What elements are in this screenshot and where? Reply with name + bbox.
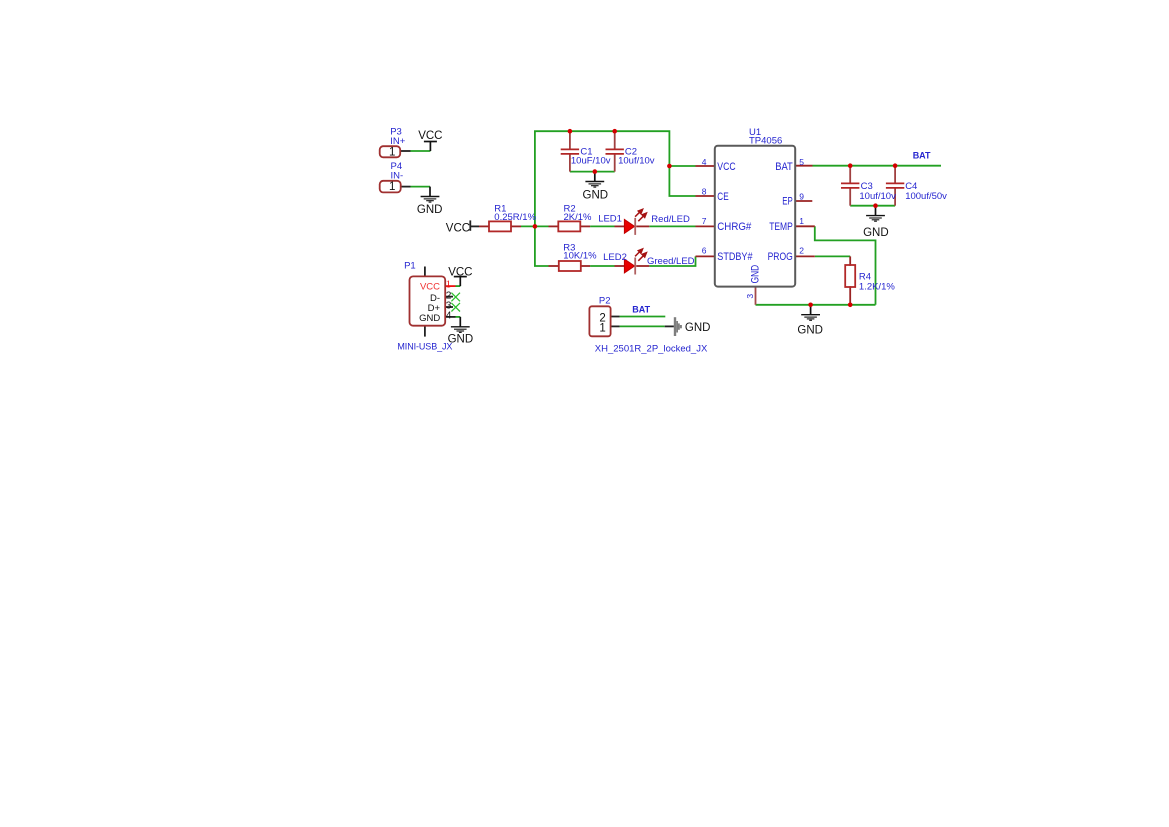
svg-text:EP: EP (782, 196, 793, 208)
svg-text:Red/LED: Red/LED (651, 214, 690, 225)
svg-text:TP4056: TP4056 (749, 136, 782, 147)
svg-text:GND: GND (863, 227, 889, 239)
svg-text:100uf/50v: 100uf/50v (905, 191, 947, 202)
svg-text:BAT: BAT (632, 305, 650, 315)
svg-text:VCC: VCC (446, 223, 470, 235)
svg-text:VCC: VCC (448, 266, 472, 278)
svg-text:1: 1 (389, 181, 395, 193)
svg-text:P1: P1 (404, 260, 416, 271)
svg-text:4: 4 (702, 157, 707, 167)
svg-text:CHRG#: CHRG# (717, 221, 751, 233)
svg-text:TEMP: TEMP (769, 221, 793, 233)
svg-text:2: 2 (799, 246, 804, 256)
svg-text:7: 7 (702, 216, 707, 226)
svg-text:GND: GND (685, 322, 711, 334)
svg-text:2K/1%: 2K/1% (564, 212, 593, 223)
svg-text:1: 1 (446, 279, 451, 290)
svg-text:GND: GND (750, 265, 762, 284)
svg-text:VCC: VCC (418, 130, 442, 142)
svg-text:LED2: LED2 (603, 252, 627, 263)
svg-text:BAT: BAT (775, 161, 793, 173)
svg-text:VCC: VCC (420, 281, 440, 292)
svg-text:LED1: LED1 (598, 213, 622, 224)
svg-text:9: 9 (799, 192, 804, 202)
svg-text:GND: GND (417, 204, 443, 216)
svg-text:BAT: BAT (913, 150, 931, 160)
svg-text:6: 6 (702, 246, 707, 256)
svg-text:10uF/10v: 10uF/10v (571, 155, 611, 166)
svg-text:P2: P2 (599, 296, 611, 307)
svg-text:1: 1 (389, 146, 395, 158)
svg-text:4: 4 (446, 311, 452, 322)
svg-text:0.25R/1%: 0.25R/1% (494, 212, 536, 223)
svg-text:10K/1%: 10K/1% (563, 251, 597, 262)
svg-text:GND: GND (797, 325, 823, 337)
svg-text:MINI-USB_JX: MINI-USB_JX (397, 342, 452, 352)
svg-text:3: 3 (745, 294, 755, 299)
svg-text:XH_2501R_2P_locked_JX: XH_2501R_2P_locked_JX (595, 344, 708, 355)
svg-text:10uf/10v: 10uf/10v (618, 155, 655, 166)
svg-text:5: 5 (799, 157, 804, 167)
svg-text:IN+: IN+ (390, 136, 406, 147)
svg-text:PROG: PROG (768, 251, 793, 263)
svg-text:STDBY#: STDBY# (717, 251, 752, 263)
svg-text:GND: GND (583, 190, 609, 202)
svg-text:CE: CE (717, 191, 728, 203)
svg-text:IN-: IN- (391, 170, 404, 181)
svg-text:1.2K/1%: 1.2K/1% (859, 281, 895, 292)
svg-text:10uf/10v: 10uf/10v (859, 191, 896, 202)
svg-text:1: 1 (799, 216, 804, 226)
svg-text:VCC: VCC (717, 161, 736, 173)
svg-text:GND: GND (448, 334, 474, 346)
svg-text:Greed/LED: Greed/LED (647, 256, 695, 267)
svg-text:8: 8 (702, 187, 707, 197)
svg-text:GND: GND (419, 313, 440, 324)
svg-text:1: 1 (599, 322, 605, 334)
